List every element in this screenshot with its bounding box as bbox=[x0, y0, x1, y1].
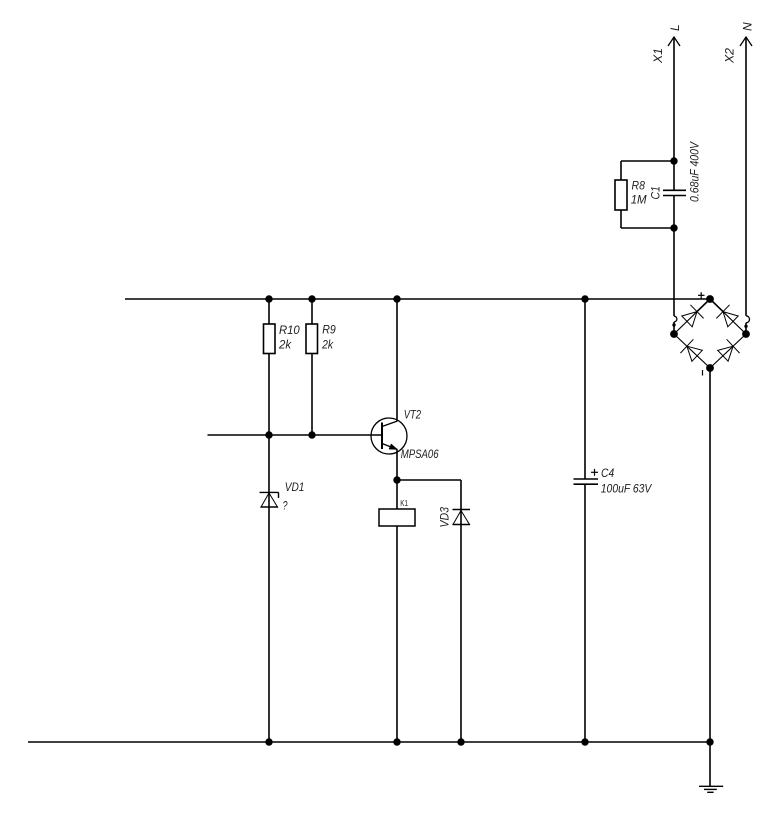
wire K1 coil bottom lead bbox=[396, 526, 398, 742]
svg-text:C1: C1 bbox=[649, 186, 663, 199]
junction emitter/VD3 bbox=[393, 476, 400, 483]
wire K1 coil top lead bbox=[396, 480, 398, 509]
junction base/R9 bbox=[308, 431, 315, 438]
svg-text:2k: 2k bbox=[278, 338, 292, 352]
capacitor C4 bbox=[574, 479, 599, 484]
node bridge left bbox=[670, 330, 678, 338]
terminal X2 arrow bbox=[740, 37, 752, 46]
svg-text:?: ? bbox=[283, 499, 288, 513]
wire bridge bottom to rail bbox=[709, 368, 711, 742]
terminal X1 arrow bbox=[668, 37, 680, 46]
node X1 hop dot bbox=[672, 323, 675, 326]
svg-text:R8: R8 bbox=[632, 178, 646, 192]
node bridge top bbox=[706, 295, 714, 303]
svg-text:X2: X2 bbox=[723, 48, 737, 64]
svg-text:C4: C4 bbox=[601, 466, 614, 480]
wire VT2 collector bbox=[396, 299, 398, 421]
junction bottom/VD1 bbox=[265, 738, 272, 745]
label R10 value bbox=[278, 323, 300, 352]
junction rail/R9 bbox=[308, 295, 315, 302]
wire R9 top lead bbox=[311, 299, 313, 324]
wire R8 top lead bbox=[620, 161, 622, 180]
svg-text:100uF 63V: 100uF 63V bbox=[601, 482, 652, 496]
label R9 value bbox=[321, 323, 336, 352]
svg-text:N: N bbox=[741, 22, 755, 31]
wire R8/C1 bottom link bbox=[621, 227, 674, 229]
svg-text:2k: 2k bbox=[321, 338, 334, 352]
wire bottom rail bbox=[28, 741, 710, 743]
label bridge minus bbox=[702, 370, 704, 376]
transistor VT2 bbox=[371, 418, 407, 454]
node bridge bottom bbox=[706, 364, 714, 372]
bridge diode lower-right bbox=[718, 339, 740, 361]
junction base/R10 bbox=[265, 431, 272, 438]
wire R10 bottom lead bbox=[268, 354, 270, 436]
bridge diode upper-right bbox=[710, 299, 738, 327]
junction bottom/C4 bbox=[581, 738, 588, 745]
svg-text:0.68uF 400V: 0.68uF 400V bbox=[688, 141, 702, 202]
bridge diode upper-left bbox=[682, 299, 710, 327]
label bridge plus bbox=[698, 292, 705, 298]
wire VD1 branch bbox=[268, 435, 270, 742]
svg-text:X1: X1 bbox=[651, 48, 665, 64]
junction rail/C4 bbox=[581, 295, 588, 302]
junction X1/R8 top bbox=[670, 157, 677, 164]
wire VD3 branch bbox=[460, 480, 462, 742]
resistor R8 bbox=[615, 180, 627, 210]
wire R9 bottom lead bbox=[311, 354, 313, 436]
junction bottom/VD3 bbox=[457, 738, 464, 745]
resistor R9 bbox=[306, 324, 318, 354]
wire R8 bottom lead bbox=[620, 210, 622, 228]
wire emitter to VD3 bbox=[397, 479, 461, 481]
svg-text:1M: 1M bbox=[631, 193, 647, 207]
wire VT2 emitter bbox=[396, 450, 398, 481]
bridge diode lower-left bbox=[680, 339, 702, 361]
node X2 hop dot bbox=[744, 325, 747, 328]
junction rail/R10 bbox=[265, 295, 272, 302]
ground bbox=[699, 742, 723, 792]
bridge rectifier edge bottom-right bbox=[710, 334, 746, 368]
wire top rail bbox=[125, 298, 710, 300]
wire C4 top lead bbox=[584, 299, 586, 479]
junction bottom/ground bbox=[706, 738, 713, 745]
label C4 polarity plus bbox=[591, 469, 598, 476]
junction rail/VT2 collector bbox=[393, 295, 400, 302]
wire R8/C1 top link bbox=[621, 160, 674, 162]
svg-text:R9: R9 bbox=[322, 323, 336, 337]
wire C4 bottom lead bbox=[584, 484, 586, 742]
wire R10 top lead bbox=[268, 299, 270, 324]
diode VD3 bbox=[453, 510, 471, 525]
node bridge right bbox=[742, 330, 750, 338]
svg-text:VT2: VT2 bbox=[404, 408, 422, 422]
bridge rectifier edge top-left bbox=[674, 299, 710, 334]
junction X1/R8 bottom bbox=[670, 224, 677, 231]
relay K1 bbox=[379, 509, 415, 526]
label R8 value bbox=[631, 178, 647, 206]
svg-text:R10: R10 bbox=[279, 323, 300, 337]
resistor R10 bbox=[264, 324, 276, 354]
svg-text:VD3: VD3 bbox=[437, 507, 451, 528]
bridge rectifier edge bottom-left bbox=[674, 334, 710, 368]
zener diode VD1 bbox=[260, 492, 279, 507]
svg-text:VD1: VD1 bbox=[285, 480, 305, 494]
wire base rail (VT2 base wire) bbox=[208, 434, 383, 436]
svg-text:K1: K1 bbox=[400, 498, 408, 508]
svg-text:MPSA06: MPSA06 bbox=[401, 447, 439, 461]
bridge rectifier edge top-right bbox=[710, 299, 746, 334]
capacitor C1 bbox=[663, 190, 686, 195]
junction bottom/K1 bbox=[393, 738, 400, 745]
svg-text:L: L bbox=[668, 24, 682, 31]
terminal X2 wire bbox=[746, 37, 750, 334]
terminal X1 wire bbox=[674, 37, 677, 334]
